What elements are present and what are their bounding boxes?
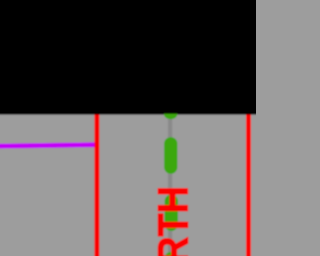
magenta route line (horizontal) <box>0 145 97 146</box>
black top band (unmapped area) <box>0 0 261 115</box>
red road line left (vertical) <box>94 108 99 256</box>
transit route dash (behind street label) <box>165 195 178 231</box>
svg-text:NORTH: NORTH <box>148 186 197 256</box>
transit route dash (middle pill) <box>164 137 177 174</box>
red road line right (vertical) <box>246 108 251 256</box>
gray road centerline (vertical) <box>168 108 172 256</box>
transit route dash (bottom edge) <box>165 252 178 256</box>
transit route dash tip below black band <box>164 114 178 119</box>
